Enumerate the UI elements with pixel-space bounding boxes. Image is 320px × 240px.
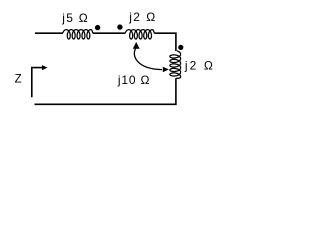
wire between L1 and L2: [93, 32, 126, 34]
mutual coupling arc j10 ohm (double-headed curved arrow): [134, 48, 162, 70]
wire top-left lead: [35, 32, 63, 34]
inductor L2 j2 ohm (horizontal coil): [125, 30, 154, 39]
polarity dot L2: [117, 24, 122, 29]
impedance arrow (bent, pointing right): [32, 68, 43, 98]
mutual arrowhead (up, at L2): [133, 42, 140, 49]
wire top-right with corner down: [154, 33, 176, 51]
polarity dot L1: [95, 25, 100, 30]
svg-text:j5 Ω: j5 Ω: [61, 11, 87, 25]
mutual arrowhead (right, at L3): [163, 67, 169, 73]
polarity dot L3: [178, 45, 183, 50]
impedance arrowhead: [42, 65, 48, 70]
inductor L3 j2 ohm (vertical coil): [170, 51, 181, 79]
svg-text:Z: Z: [15, 74, 22, 86]
inductor L1 j5 ohm (horizontal coil): [63, 30, 93, 39]
wire right-bottom and bottom return: [35, 78, 176, 104]
svg-text:j10 Ω: j10 Ω: [117, 73, 150, 87]
